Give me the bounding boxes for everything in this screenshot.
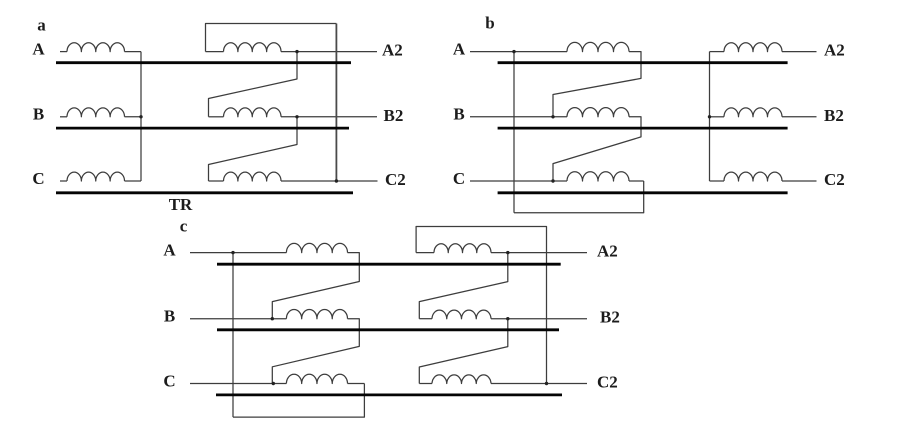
- svg-text:TR: TR: [169, 195, 193, 214]
- svg-text:C: C: [453, 169, 465, 188]
- svg-text:b: b: [485, 14, 494, 33]
- svg-text:A2: A2: [597, 242, 618, 261]
- svg-text:A: A: [453, 39, 466, 58]
- svg-text:B: B: [453, 105, 464, 124]
- svg-text:A: A: [163, 240, 176, 259]
- svg-text:A: A: [32, 39, 45, 58]
- svg-text:C2: C2: [824, 170, 845, 189]
- svg-text:C: C: [32, 169, 44, 188]
- svg-text:B: B: [164, 307, 175, 326]
- svg-text:B2: B2: [824, 106, 844, 125]
- svg-text:c: c: [180, 217, 188, 236]
- svg-text:a: a: [37, 15, 46, 34]
- svg-text:B2: B2: [600, 308, 620, 327]
- svg-text:C2: C2: [385, 170, 406, 189]
- svg-text:B: B: [33, 105, 44, 124]
- svg-text:B2: B2: [384, 106, 404, 125]
- svg-text:C2: C2: [597, 373, 618, 392]
- svg-text:A2: A2: [382, 41, 403, 60]
- svg-text:C: C: [163, 371, 175, 390]
- svg-text:A2: A2: [824, 41, 845, 60]
